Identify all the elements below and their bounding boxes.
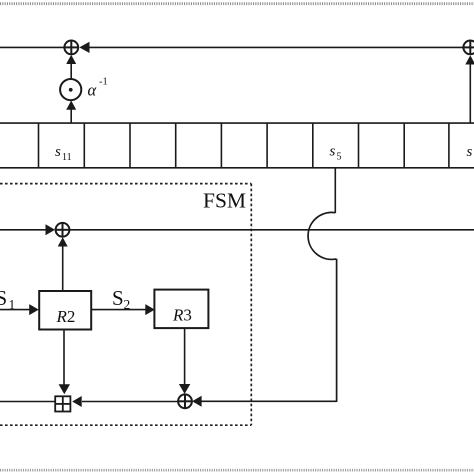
wire: S1 input into R2 from left edge <box>0 309 30 311</box>
XOR U4 (adder circle near R3) <box>178 394 192 408</box>
wire: register s11 cell up into multiplier M1 <box>70 108 72 123</box>
arrowhead left into adder A1 <box>72 396 82 407</box>
arrowhead into XOR U1 (pointing left) <box>79 42 89 53</box>
wire: s5 cell down to crossover arc <box>334 168 336 213</box>
wire: FSM output from adder A1 to left edge <box>0 401 55 403</box>
modular adder A1 (boxed plus) <box>55 396 70 411</box>
XOR U2 (top-right adder circle, clipped by edge) <box>463 41 474 55</box>
svg-text:5: 5 <box>337 152 342 163</box>
arrowhead left into XOR U4 <box>192 396 202 407</box>
arrowhead down into adder A1 <box>59 384 70 394</box>
register R2 box <box>39 291 91 330</box>
wire: R2 down to modular adder A1 <box>63 330 65 386</box>
arrowhead down into XOR U4 <box>179 384 190 394</box>
wire: multiplier output up into XOR U1 <box>70 62 72 79</box>
wire: crossover arc down to bottom wire <box>336 259 338 402</box>
svg-text:s: s <box>55 144 61 160</box>
arrowhead right into R3 <box>145 304 155 315</box>
svg-text:FSM: FSM <box>203 189 246 213</box>
top figure-edge grey dotted border <box>0 2 474 5</box>
cell label s5 <box>330 144 342 163</box>
arrowhead up into XOR U1 <box>66 55 76 64</box>
arrowhead up into multiplier M1 <box>66 101 76 110</box>
svg-text:R2: R2 <box>56 307 76 326</box>
FSM dashed box right edge <box>250 184 252 426</box>
arrowhead right into R2 <box>29 304 39 315</box>
LFSR register bank top edge <box>0 122 474 124</box>
svg-text:α: α <box>88 81 97 100</box>
svg-text:S: S <box>0 286 7 310</box>
crossover hop arc (s5 line jumping the keystream wire) <box>308 212 336 259</box>
wire: rightmost cell up to XOR U2 <box>469 63 471 123</box>
cell label s11 <box>55 144 72 163</box>
wire: S2 from R2 to R3 <box>91 309 146 311</box>
wire: R2 output up into XOR U3 <box>62 245 64 291</box>
arrowhead right into XOR U3 <box>46 224 56 235</box>
wire: XOR U4 output to adder A1 <box>82 401 178 403</box>
FSM dashed box top edge <box>0 183 251 185</box>
svg-text:11: 11 <box>62 152 72 163</box>
wire: output of XOR U1 continuing left to figure edge <box>0 46 64 48</box>
svg-text:s: s <box>330 144 336 160</box>
FSM dashed box bottom edge <box>0 424 251 426</box>
wire: s5 tap line from vertical drop into XOR U4 <box>201 400 337 402</box>
wire: keystream line into XOR U3 from left edge <box>0 229 46 231</box>
bottom figure-edge grey dotted border <box>0 469 474 472</box>
arrowhead up into XOR U3 <box>58 237 68 246</box>
multiplier M1 (alpha^-1 dot circle) <box>60 79 81 100</box>
svg-text:s: s <box>467 144 473 160</box>
svg-text:-1: -1 <box>99 77 108 88</box>
arrowhead up into XOR U2 <box>465 55 474 64</box>
value label alpha^-1 <box>88 77 108 100</box>
wire: keystream line from XOR U3 to right edge <box>69 229 474 231</box>
svg-text:R3: R3 <box>172 306 192 325</box>
wire: feedback bus at top, right XOR to left XOR <box>89 46 464 48</box>
svg-text:S: S <box>112 286 124 310</box>
label S2 <box>112 286 130 312</box>
LFSR register bank bottom edge <box>0 167 474 169</box>
label S1 (clipped at left edge) <box>0 286 15 312</box>
wire: R3 down to XOR U4 <box>184 328 186 385</box>
register cell boundaries <box>39 123 449 168</box>
XOR U1 (top-left adder circle) <box>64 41 78 55</box>
XOR U3 (FSM output adder) <box>56 223 70 237</box>
register R3 box <box>154 290 208 329</box>
